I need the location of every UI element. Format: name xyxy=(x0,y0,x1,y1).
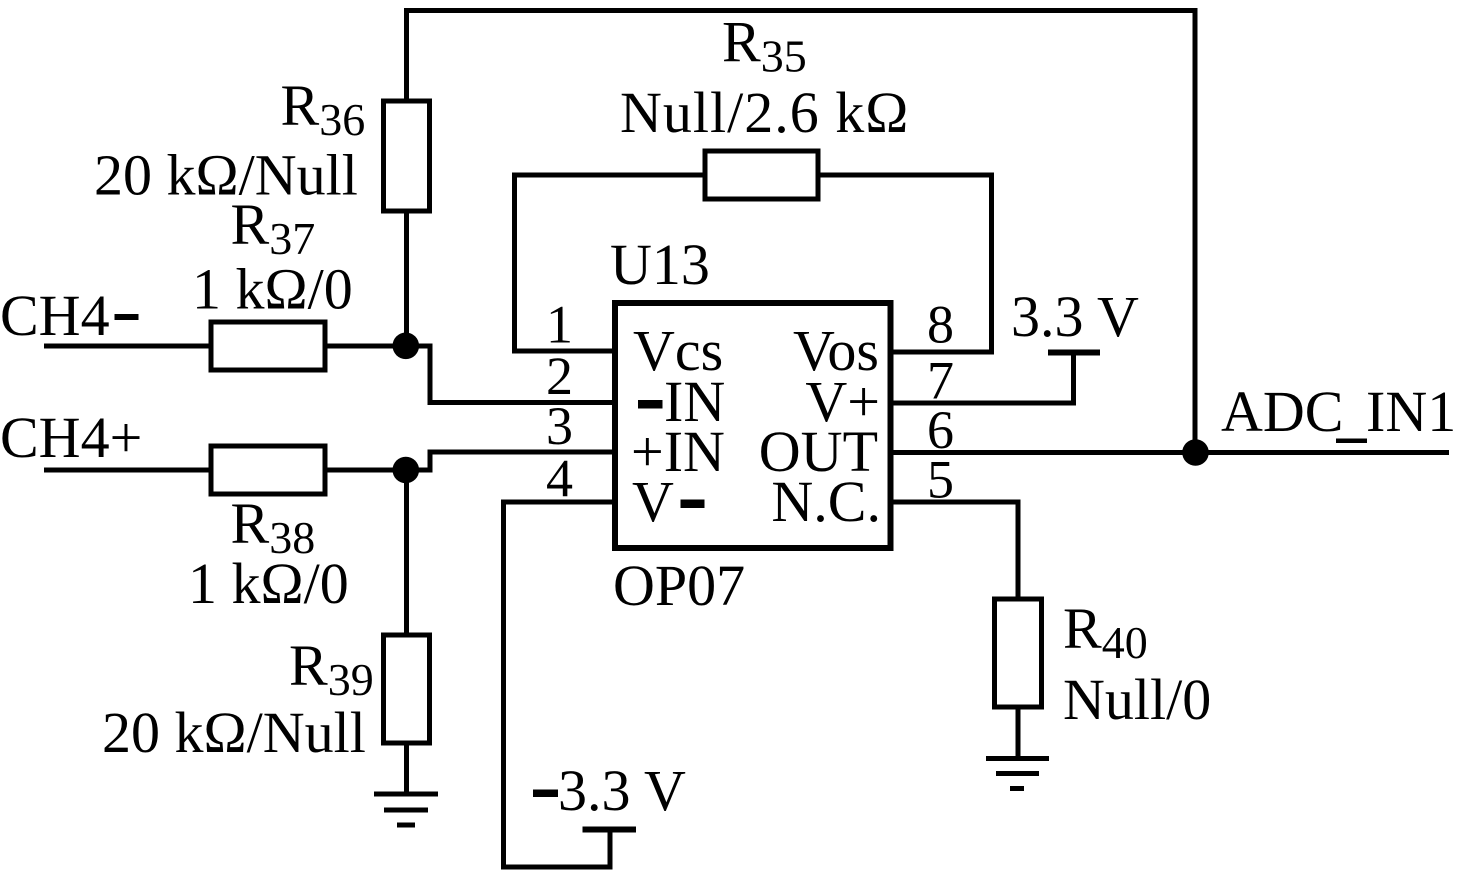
node A junction dot xyxy=(393,333,420,360)
svg-text:U13: U13 xyxy=(610,232,710,297)
wire feedback top: R36 top to output node xyxy=(407,11,1196,453)
resistor R35 xyxy=(705,151,818,199)
svg-text:CH4: CH4 xyxy=(0,283,110,348)
svg-text:3.3 V: 3.3 V xyxy=(558,758,686,823)
svg-text:5: 5 xyxy=(927,450,954,510)
resistor R37 xyxy=(211,322,325,370)
resistor R39 xyxy=(384,635,430,743)
wire node A to pin 2 xyxy=(405,346,615,403)
ground below R39 xyxy=(374,794,438,825)
svg-text:Null/2.6 kΩ: Null/2.6 kΩ xyxy=(620,80,909,145)
wire pin 7 to 3.3V stem xyxy=(890,352,1074,403)
svg-text:IN1: IN1 xyxy=(1366,379,1456,444)
op-amp U13 body xyxy=(615,303,891,548)
svg-text:4: 4 xyxy=(546,449,573,509)
resistor R36 xyxy=(384,101,430,211)
svg-text:1 kΩ/0: 1 kΩ/0 xyxy=(188,551,349,616)
svg-text:3.3 V: 3.3 V xyxy=(1011,284,1139,349)
wire node B to pin 3 xyxy=(405,452,615,470)
svg-text:20 kΩ/Null: 20 kΩ/Null xyxy=(94,143,358,208)
svg-text:ADC: ADC xyxy=(1221,379,1343,444)
wire pin 6 OUT to ADC_IN1 xyxy=(890,450,1449,455)
svg-text:1 kΩ/0: 1 kΩ/0 xyxy=(192,257,353,322)
pin name -IN xyxy=(638,400,663,409)
svg-text:N.C.: N.C. xyxy=(771,469,881,534)
wire pin 4 to -3.3V stem xyxy=(504,502,616,867)
label -3.3 V xyxy=(533,790,558,798)
wire pin 5 to R40 xyxy=(890,502,1018,601)
power -3.3V bar xyxy=(583,827,637,833)
svg-text:V: V xyxy=(632,469,674,534)
wire pin 1 to R35 left xyxy=(515,175,706,351)
svg-text:OP07: OP07 xyxy=(613,553,745,618)
power 3.3V bar xyxy=(1048,350,1100,356)
resistor R38 xyxy=(211,446,325,494)
wire R35 right to pin 8 xyxy=(818,175,992,352)
svg-text:20 kΩ/Null: 20 kΩ/Null xyxy=(102,700,366,765)
wire R39 bottom to ground xyxy=(404,741,409,794)
wire CH4+ lead into R38 to node B xyxy=(44,468,406,473)
svg-text:3: 3 xyxy=(546,396,573,456)
ground below R40 xyxy=(986,759,1049,789)
svg-text:CH4+: CH4+ xyxy=(0,405,142,470)
svg-text:8: 8 xyxy=(927,295,954,355)
svg-text:Null/0: Null/0 xyxy=(1063,667,1211,732)
resistor R40 xyxy=(995,599,1042,707)
node B junction dot xyxy=(393,457,420,484)
wire R36 bottom to node A xyxy=(404,209,409,346)
wire node B down to R39 xyxy=(404,470,409,637)
output node junction dot xyxy=(1182,439,1209,466)
wire CH4- lead into R37 to node A xyxy=(44,344,406,349)
wire R40 bottom to ground xyxy=(1016,706,1021,759)
